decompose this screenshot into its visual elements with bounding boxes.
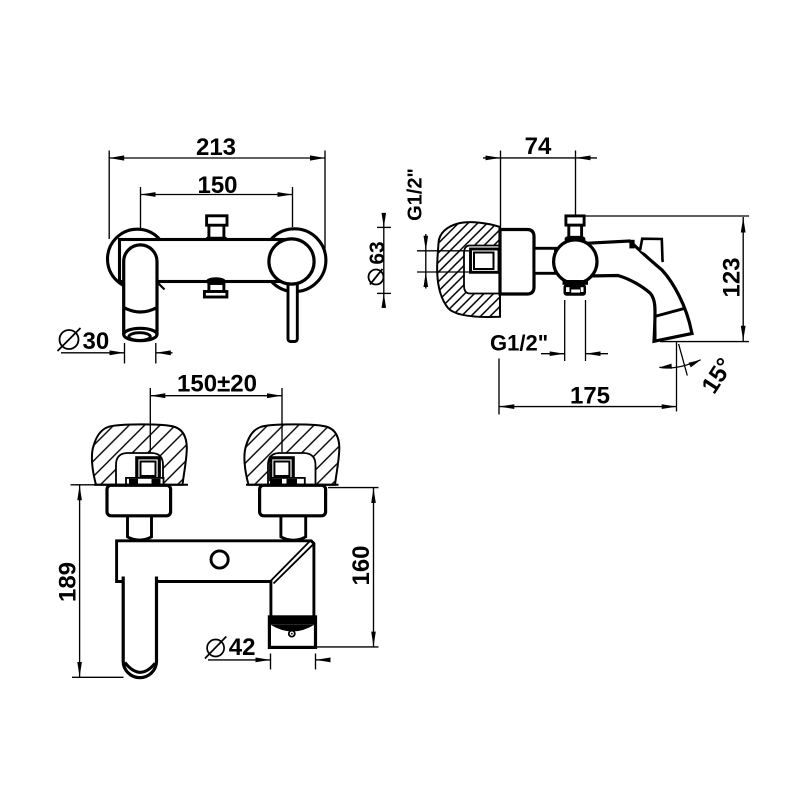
svg-text:42: 42 — [229, 634, 256, 661]
diverter knob side — [566, 216, 584, 237]
svg-text:74: 74 — [525, 133, 552, 160]
union nut left — [137, 458, 160, 480]
chamfer under bar right of spout — [158, 283, 165, 290]
spout joint arc — [124, 308, 157, 313]
dim 213 line — [109, 151, 325, 250]
dim 150+-20 line — [150, 395, 282, 397]
dim 150 line — [141, 187, 293, 242]
wall cavity left — [116, 453, 163, 485]
slab circle — [211, 551, 228, 568]
G1/2 extension lines over wall — [417, 251, 470, 272]
washer strip left — [126, 478, 164, 485]
body slab + column — [117, 541, 314, 617]
escutcheon plate right — [260, 485, 326, 516]
wall face lines — [94, 484, 188, 486]
end cap outer — [269, 617, 315, 648]
dim d42 lines — [208, 654, 331, 670]
15 deg lines — [660, 342, 701, 412]
svg-text:30: 30 — [83, 328, 110, 355]
svg-text:123: 123 — [719, 257, 746, 297]
handle lever side — [640, 239, 663, 262]
body bar — [120, 240, 297, 282]
wall block left — [92, 424, 187, 484]
dim 123 arrows — [741, 218, 746, 341]
svg-text:150±20: 150±20 — [177, 371, 257, 398]
wall cavity right — [268, 453, 316, 485]
dim 189 — [71, 485, 124, 678]
wall flange — [500, 230, 534, 295]
svg-text:175: 175 — [570, 383, 610, 410]
svg-text:189: 189 — [54, 562, 81, 602]
washer strip right — [271, 478, 305, 485]
G1/2 vertical dim — [425, 234, 427, 289]
neck left — [128, 516, 152, 540]
svg-text:G1/2": G1/2" — [490, 331, 548, 356]
dim d30 arrows — [110, 350, 171, 355]
spout side — [588, 241, 692, 341]
neck right — [281, 516, 306, 540]
end cap arc — [271, 625, 315, 632]
cartridge circle — [554, 240, 597, 283]
neck — [534, 248, 556, 273]
wall cavity — [464, 246, 502, 294]
dim 213 arrows — [109, 155, 325, 160]
svg-text:213: 213 — [196, 134, 236, 161]
dim 175 — [499, 359, 677, 415]
svg-text:G1/2": G1/2" — [405, 168, 427, 221]
15 deg arc arrows — [659, 360, 701, 369]
escutcheon plate left — [107, 485, 171, 516]
end cap band — [271, 618, 315, 625]
knob base ellipse side — [566, 237, 584, 242]
d63 dim — [377, 214, 391, 308]
G1/2 bottom dim — [541, 300, 608, 361]
ext lines into walls — [150, 388, 282, 452]
spout aerator band line — [655, 308, 685, 316]
end cap dot — [289, 631, 295, 637]
union nut side — [471, 249, 500, 272]
dim 150 arrows — [141, 192, 293, 197]
handle rod right — [288, 268, 297, 342]
dim 74 line — [483, 151, 597, 229]
svg-text:160: 160 — [348, 545, 375, 585]
dim 123 ext lines — [585, 216, 749, 342]
handle pivot block — [629, 240, 634, 249]
wall block right — [244, 424, 339, 484]
clip under bar center — [204, 279, 227, 297]
svg-text:63: 63 — [366, 241, 389, 264]
dim d42 label — [205, 637, 226, 659]
dim d30 lines — [61, 343, 173, 364]
tube end inner arc — [125, 663, 155, 673]
dim d30 label — [58, 328, 81, 351]
wall face line below flange — [499, 294, 501, 318]
shower outlet clip below circle — [563, 280, 589, 285]
escutcheon right outer circle — [263, 229, 326, 292]
wall section side — [437, 222, 500, 317]
dim 160 — [317, 488, 379, 647]
diverter knob top — [207, 216, 228, 243]
dim 74 arrows — [486, 156, 591, 161]
spout tube bottom view — [125, 572, 156, 581]
spout end outer ellipse — [124, 328, 157, 340]
union nut right — [271, 458, 294, 480]
spout end inner ellipse — [129, 333, 150, 341]
slab diagonals — [271, 542, 314, 584]
escutcheon left circle — [108, 229, 168, 289]
handle cap inner circle — [269, 239, 314, 284]
spout tube front — [124, 245, 157, 335]
